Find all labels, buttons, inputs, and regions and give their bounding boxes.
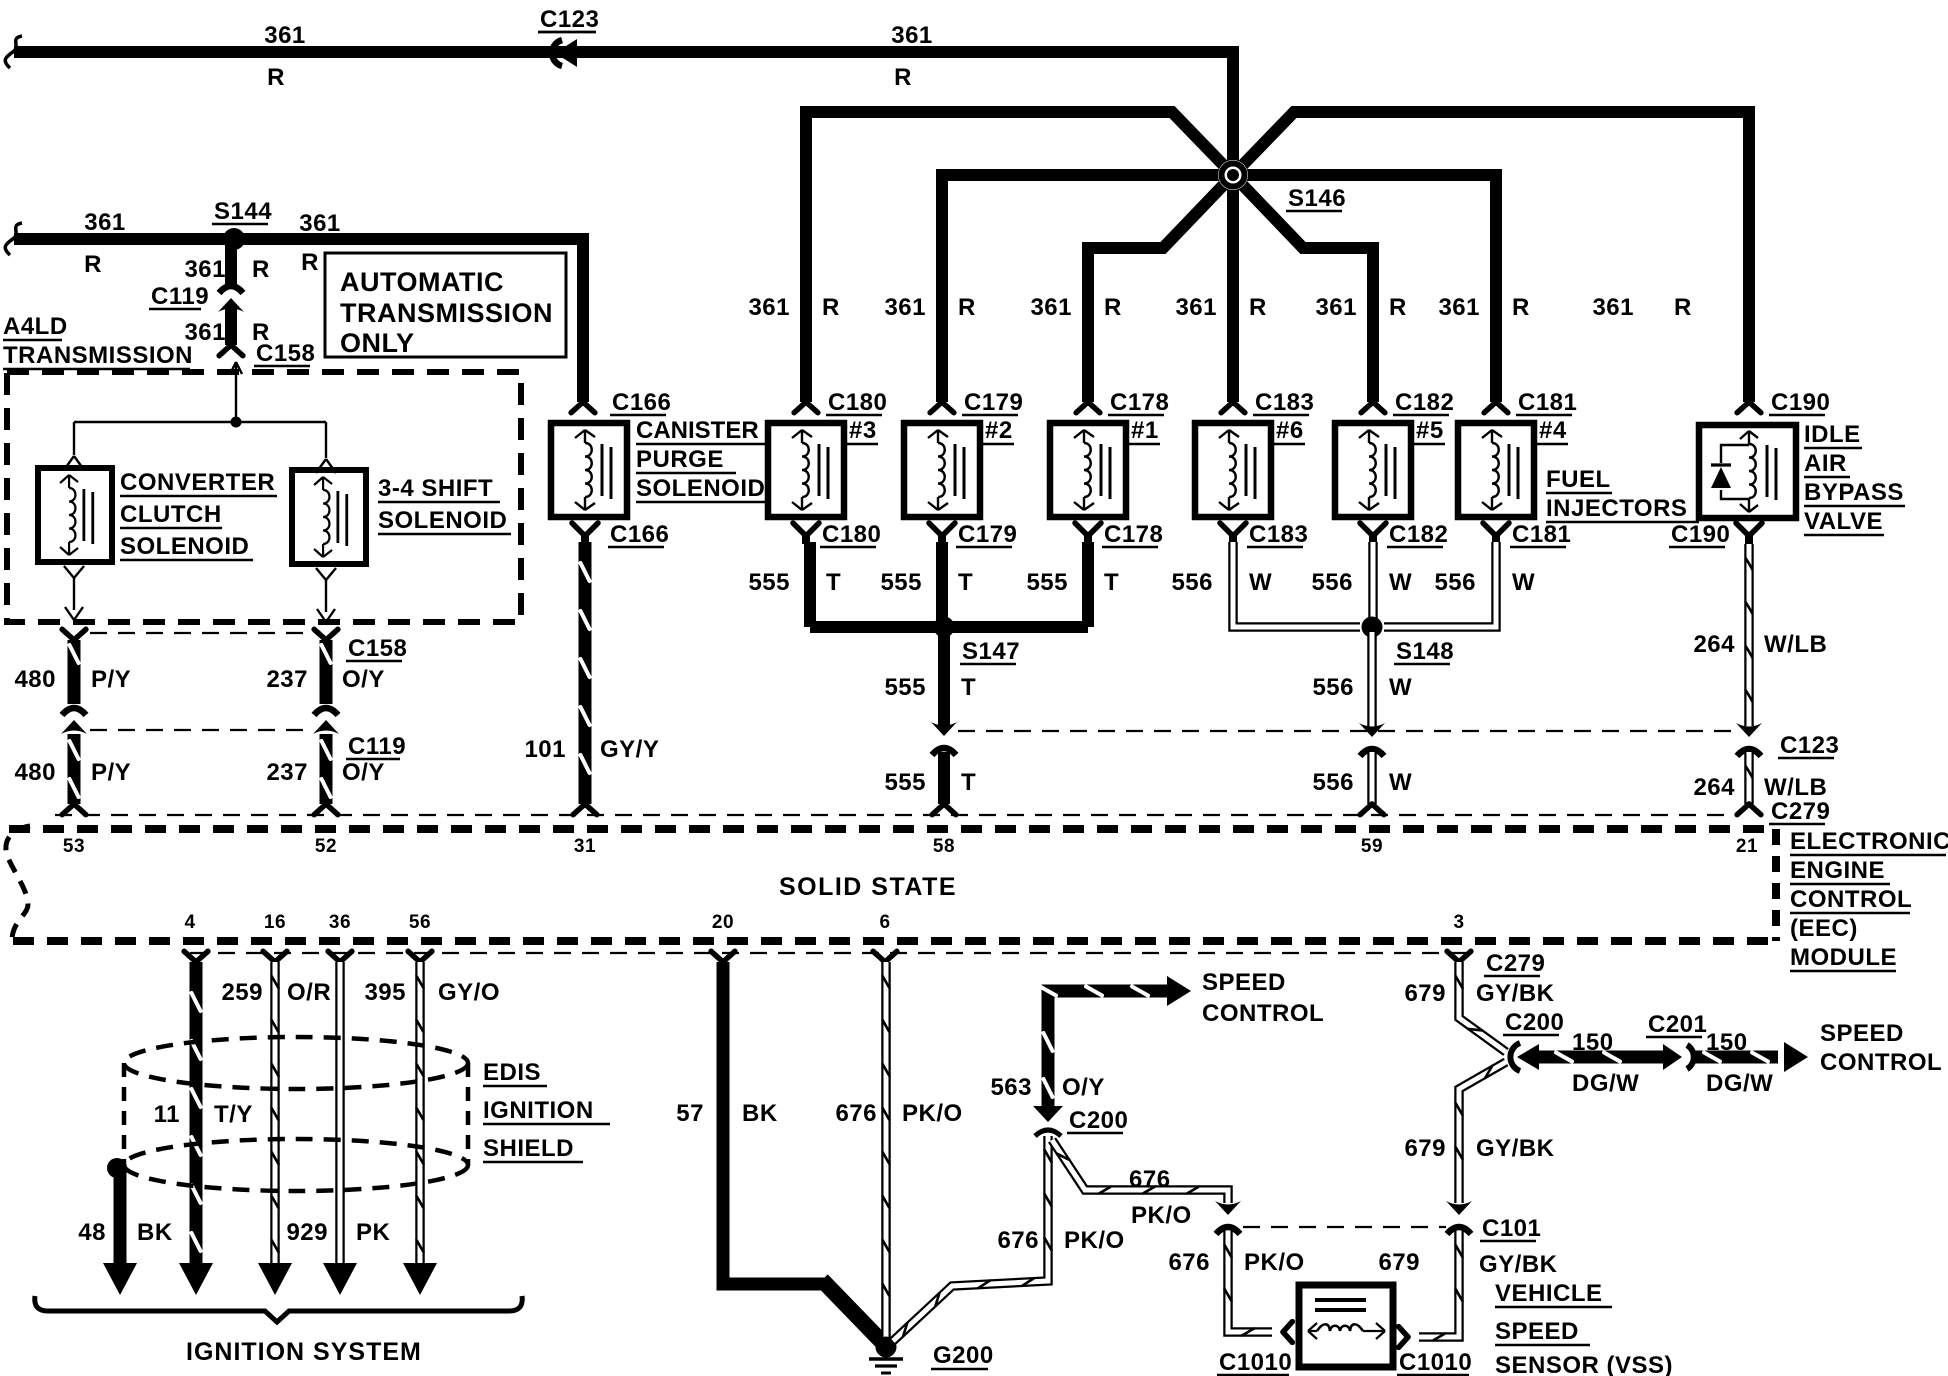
connector C123 (top bus) <box>538 6 599 67</box>
wire 555 T from injector #1 <box>1082 542 1094 627</box>
connector C158 line (dashed) <box>90 632 312 634</box>
svg-text:R: R <box>1249 294 1267 321</box>
svg-text:555: 555 <box>880 569 922 596</box>
svg-text:C101: C101 <box>1482 1215 1541 1242</box>
label R (above C119) <box>252 256 270 283</box>
label 264 (lower) <box>1693 774 1735 801</box>
svg-text:(EEC): (EEC) <box>1790 915 1858 942</box>
svg-text:ENGINE: ENGINE <box>1790 857 1885 884</box>
EEC pin 53 <box>63 836 85 857</box>
svg-text:31: 31 <box>574 836 596 857</box>
wire 556 W from injector #5 <box>1368 542 1378 632</box>
svg-text:C1010: C1010 <box>1219 1349 1292 1376</box>
svg-text:IGNITION SYSTEM: IGNITION SYSTEM <box>186 1338 422 1366</box>
EEC module outline top (dashed) <box>9 825 1776 833</box>
junction node inside A4LD <box>231 417 242 428</box>
connector C190 (top of idle air bypass valve) <box>1737 389 1830 416</box>
svg-text:555: 555 <box>884 769 926 796</box>
svg-text:C181: C181 <box>1512 521 1571 548</box>
wire 361 R top bus <box>14 46 1233 179</box>
label SOLID STATE <box>779 873 957 901</box>
svg-text:P/Y: P/Y <box>91 759 131 786</box>
svg-text:#6: #6 <box>1276 417 1304 444</box>
ignition system bracket <box>35 1296 522 1322</box>
svg-text:480: 480 <box>14 759 56 786</box>
label #4 <box>1537 417 1568 444</box>
connector C200 (679 to 150) <box>1503 1009 1564 1071</box>
wire 556 W from injector #6 <box>1233 542 1360 627</box>
label SPEED (upper speed control) <box>1202 969 1286 996</box>
label 556 at x1373 <box>1311 569 1353 596</box>
label 556 (below S148) <box>1312 674 1354 701</box>
label C119 (left column) <box>346 733 406 760</box>
EEC pin 4 <box>184 912 195 933</box>
svg-text:CANISTER: CANISTER <box>636 417 759 444</box>
svg-text:556: 556 <box>1311 569 1353 596</box>
svg-text:IGNITION: IGNITION <box>483 1097 594 1124</box>
splice S148 <box>1362 617 1455 666</box>
label R (branch C183) <box>1249 294 1267 321</box>
label T at x942 <box>958 569 973 596</box>
svg-text:3-4 SHIFT: 3-4 SHIFT <box>378 475 493 502</box>
label 150 (left) <box>1572 1029 1614 1056</box>
label VEHICLE <box>1495 1280 1612 1307</box>
label 361 (below C119) <box>184 319 226 346</box>
svg-text:C200: C200 <box>1069 1107 1128 1134</box>
label O/Y (lower) <box>342 759 385 786</box>
svg-text:C179: C179 <box>964 389 1023 416</box>
svg-text:C180: C180 <box>828 389 887 416</box>
connector C200 (563 to 676) <box>1033 1106 1128 1136</box>
connector C101 on 679 <box>1446 1201 1541 1242</box>
wire 480 P/Y lower <box>62 734 86 815</box>
wire 48 BK (shield drain to ignition) <box>103 1168 137 1295</box>
connector C180 (top of injector #3) <box>794 389 887 416</box>
EEC pin 52 <box>315 836 337 857</box>
svg-text:C200: C200 <box>1505 1009 1564 1036</box>
connector C201 <box>1646 1011 1707 1070</box>
svg-text:101: 101 <box>524 736 566 763</box>
svg-text:GY/BK: GY/BK <box>1476 980 1555 1007</box>
label 563 <box>990 1074 1032 1101</box>
label S146 <box>1286 185 1346 212</box>
label 361 (branch C182) <box>1315 294 1357 321</box>
svg-text:W/LB: W/LB <box>1764 631 1827 658</box>
label O/Y (upper) <box>342 666 385 693</box>
label 361 (S144 left) <box>84 209 126 236</box>
connector C182 (top of injector #5) <box>1361 389 1454 416</box>
connector C119 line (dashed) <box>90 729 312 731</box>
svg-text:C123: C123 <box>540 6 599 33</box>
label 3-4 SHIFT <box>378 475 500 502</box>
svg-text:CONTROL: CONTROL <box>1202 1000 1324 1027</box>
svg-text:T/Y: T/Y <box>214 1101 253 1128</box>
terminal arrow at 3-4 shift solenoid <box>316 459 336 473</box>
wire 555 T below S147 <box>938 627 950 726</box>
svg-text:O/Y: O/Y <box>342 759 385 786</box>
label 480 (lower) <box>14 759 56 786</box>
svg-text:T: T <box>961 769 976 796</box>
svg-text:C183: C183 <box>1249 521 1308 548</box>
connector C181 (bottom of injector #4) <box>1483 521 1571 548</box>
connector C182 (bottom of injector #5) <box>1360 521 1448 548</box>
label (EEC) <box>1790 915 1858 942</box>
label SOLENOID (converter clutch) <box>120 533 253 560</box>
label 361 (branch C183) <box>1175 294 1217 321</box>
svg-text:SOLENOID: SOLENOID <box>636 475 765 502</box>
svg-text:C190: C190 <box>1771 389 1830 416</box>
svg-text:361: 361 <box>1438 294 1480 321</box>
label 361 (above C119) <box>184 256 226 283</box>
label PK/O (C200-G200) <box>1064 1227 1125 1254</box>
label 555 at x810 <box>748 569 790 596</box>
svg-text:361: 361 <box>1315 294 1357 321</box>
svg-text:4: 4 <box>184 912 195 933</box>
svg-text:C178: C178 <box>1110 389 1169 416</box>
svg-text:150: 150 <box>1706 1029 1748 1056</box>
svg-text:S146: S146 <box>1288 185 1346 212</box>
svg-text:C178: C178 <box>1104 521 1163 548</box>
svg-text:361: 361 <box>84 209 126 236</box>
wire 563 O/Y (speed control feed) <box>1040 976 1191 1108</box>
label T at x1088 <box>1104 569 1119 596</box>
wire 679 GY/BK (C200 to C101) <box>1456 1062 1506 1203</box>
label DG/W (left) <box>1572 1070 1639 1097</box>
wire 555 T from injector #2 <box>936 542 948 621</box>
EDIS ignition shield (dashed cylinder) <box>124 1037 468 1191</box>
label 259 <box>221 979 263 1006</box>
svg-text:679: 679 <box>1378 1249 1420 1276</box>
svg-text:16: 16 <box>264 912 286 933</box>
connector C183 (bottom of injector #6) <box>1220 521 1308 548</box>
wire 237 O/Y upper <box>314 629 338 704</box>
svg-text:C123: C123 <box>1780 732 1839 759</box>
label GY/BK (upper) <box>1476 980 1555 1007</box>
svg-text:SOLID STATE: SOLID STATE <box>779 873 957 901</box>
wire 556 W from injector #4 <box>1384 542 1496 627</box>
svg-text:T: T <box>958 569 973 596</box>
label R (branch C179) <box>958 294 976 321</box>
svg-text:R: R <box>267 64 285 91</box>
wire 555 T from injector #3 <box>804 542 816 627</box>
svg-text:C166: C166 <box>612 389 671 416</box>
label 679 (lower) <box>1378 1249 1420 1276</box>
wire 11 T/Y (EEC pin 4 to ignition) <box>179 951 213 1295</box>
label CANISTER <box>636 417 768 444</box>
wire 555 T to EEC pin 58 <box>932 752 956 815</box>
wire 150 DG/W (C201 to speed control) <box>1692 1042 1808 1072</box>
svg-text:BK: BK <box>137 1219 173 1246</box>
EEC pin 36 <box>329 912 351 933</box>
svg-text:150: 150 <box>1572 1029 1614 1056</box>
svg-text:52: 52 <box>315 836 337 857</box>
continuation squiggle left end of S144 bus <box>5 223 22 255</box>
label 48 <box>78 1219 106 1246</box>
label R (top bus right) <box>894 64 912 91</box>
connector C123 on 264 wire <box>1736 723 1839 759</box>
wire 676 PK/O (to VSS) <box>1225 1231 1272 1335</box>
svg-text:361: 361 <box>1592 294 1634 321</box>
label PURGE <box>636 446 736 473</box>
svg-text:361: 361 <box>748 294 790 321</box>
label MODULE <box>1790 944 1897 971</box>
label T (below S147) <box>961 674 976 701</box>
label 101 <box>524 736 566 763</box>
label CONTROL (EEC name) <box>1790 886 1912 913</box>
label SOLENOID (3-4 shift) <box>378 507 511 534</box>
connector C123 on 555 wire <box>931 722 957 755</box>
svg-text:264: 264 <box>1693 631 1735 658</box>
label SOLENOID (canister purge) <box>636 475 771 502</box>
label BK (57) <box>742 1100 778 1127</box>
EEC pin 16 <box>264 912 286 933</box>
label SHIELD <box>483 1135 583 1162</box>
svg-text:C182: C182 <box>1389 521 1448 548</box>
connector C158 (at A4LD) <box>219 340 315 367</box>
svg-text:361: 361 <box>891 22 933 49</box>
connector C1010 (left) <box>1217 1322 1292 1376</box>
splice S146 star junction <box>806 46 1749 402</box>
fuel injector #4 (C181) <box>1458 423 1534 517</box>
idle air bypass valve <box>1699 425 1796 518</box>
svg-text:T: T <box>1104 569 1119 596</box>
EEC pin 6 <box>879 912 890 933</box>
label R (branch C190) <box>1674 294 1692 321</box>
svg-text:395: 395 <box>364 979 406 1006</box>
svg-text:S148: S148 <box>1396 638 1454 665</box>
label R (below C119) <box>252 319 270 346</box>
label 556 (to pin 59) <box>1312 769 1354 796</box>
svg-text:BYPASS: BYPASS <box>1804 479 1904 506</box>
svg-text:C182: C182 <box>1395 389 1454 416</box>
connector C178 (bottom of injector #1) <box>1075 521 1163 548</box>
svg-text:59: 59 <box>1361 836 1383 857</box>
svg-text:INJECTORS: INJECTORS <box>1546 495 1687 522</box>
svg-text:237: 237 <box>266 759 308 786</box>
label 361 (top bus left) <box>264 22 306 49</box>
svg-text:563: 563 <box>990 1074 1032 1101</box>
label T/Y <box>214 1101 253 1128</box>
label 361 (branch C190) <box>1592 294 1634 321</box>
connector C166 (bottom of canister purge solenoid) <box>572 521 669 548</box>
svg-text:361: 361 <box>299 210 341 237</box>
EEC pin 20 <box>712 912 734 933</box>
svg-text:S144: S144 <box>214 198 272 225</box>
svg-text:PK/O: PK/O <box>1131 1202 1192 1229</box>
EEC module outline bottom (dashed) <box>13 937 1776 945</box>
connector C190 (bottom of idle air bypass valve) <box>1669 521 1762 548</box>
EEC module outline left brace (dashed) <box>6 826 30 941</box>
connector C180 (bottom of injector #3) <box>793 521 881 548</box>
canister purge solenoid <box>551 423 627 517</box>
svg-text:679: 679 <box>1404 980 1446 1007</box>
label 676 (to VSS) <box>1168 1249 1210 1276</box>
label PK/O (pin 6) <box>902 1100 963 1127</box>
svg-text:CONVERTER: CONVERTER <box>120 469 275 496</box>
label 679 (middle) <box>1404 1135 1446 1162</box>
wire converter clutch solenoid to case <box>64 566 84 620</box>
svg-text:ONLY: ONLY <box>340 328 415 358</box>
splice S144 <box>212 198 272 250</box>
label GY/BK (lower) <box>1479 1251 1558 1278</box>
wire 101 GY/Y (canister purge to EEC pin 31) <box>573 542 597 815</box>
fuel injector #2 (C179) <box>904 423 980 517</box>
svg-text:TRANSMISSION: TRANSMISSION <box>340 298 553 328</box>
label GY/Y <box>600 736 659 763</box>
label W at x1496 <box>1512 569 1535 596</box>
label C158 (left column) <box>346 635 407 662</box>
label 237 (upper) <box>266 666 308 693</box>
svg-text:R: R <box>1389 294 1407 321</box>
connector C101 line (dashed) <box>1243 1226 1446 1228</box>
svg-text:SENSOR (VSS): SENSOR (VSS) <box>1495 1352 1673 1376</box>
svg-text:556: 556 <box>1312 674 1354 701</box>
svg-text:CLUTCH: CLUTCH <box>120 501 222 528</box>
label PK/O (to VSS) <box>1244 1249 1305 1276</box>
svg-text:53: 53 <box>63 836 85 857</box>
label 361 (branch C181) <box>1438 294 1480 321</box>
label 480 (upper) <box>14 666 56 693</box>
connector C123 on 556 wire <box>1359 723 1385 756</box>
connector C183 (top of injector #6) <box>1221 389 1314 416</box>
label CLUTCH <box>120 501 222 528</box>
svg-text:555: 555 <box>1026 569 1068 596</box>
wire inside A4LD from C158 to solenoids <box>74 362 326 458</box>
svg-text:W: W <box>1389 674 1412 701</box>
label R (top bus left) <box>267 64 285 91</box>
label EDIS <box>483 1059 547 1086</box>
svg-text:C180: C180 <box>822 521 881 548</box>
wire 259 O/R (EEC pin 16) <box>258 951 292 1295</box>
label W (to pin 59) <box>1389 769 1412 796</box>
label O/Y (563) <box>1062 1074 1105 1101</box>
svg-text:C201: C201 <box>1648 1011 1707 1038</box>
wire 556 W below S148 <box>1367 632 1377 727</box>
svg-text:SPEED: SPEED <box>1495 1318 1579 1345</box>
connector C181 (top of injector #4) <box>1484 389 1577 416</box>
svg-text:PK/O: PK/O <box>1064 1227 1125 1254</box>
label IGNITION SYSTEM <box>186 1338 422 1366</box>
svg-text:G200: G200 <box>933 1342 994 1369</box>
label 150 (right) <box>1706 1029 1748 1056</box>
svg-text:EDIS: EDIS <box>483 1059 541 1086</box>
label G200 <box>931 1342 994 1369</box>
svg-text:AIR: AIR <box>1804 450 1847 477</box>
wire 929 PK (EEC pin 36) <box>323 951 357 1295</box>
svg-text:361: 361 <box>184 256 226 283</box>
svg-text:21: 21 <box>1736 836 1758 857</box>
label 11 <box>154 1101 180 1128</box>
fuel injector #1 (C178) <box>1050 423 1126 517</box>
svg-text:AUTOMATIC: AUTOMATIC <box>340 267 504 297</box>
svg-text:679: 679 <box>1404 1135 1446 1162</box>
connector C119 on wire 480 <box>61 708 87 734</box>
svg-text:C158: C158 <box>348 635 407 662</box>
label CONTROL (right speed control) <box>1820 1049 1942 1076</box>
label W at x1233 <box>1249 569 1272 596</box>
label GY/BK (middle) <box>1476 1135 1555 1162</box>
svg-text:R: R <box>84 251 102 278</box>
svg-text:264: 264 <box>1693 774 1735 801</box>
EEC pin 3 <box>1453 912 1464 933</box>
splice S147 <box>934 617 1021 666</box>
svg-text:56: 56 <box>409 912 431 933</box>
EEC pin 31 <box>574 836 596 857</box>
label ENGINE <box>1790 857 1890 884</box>
svg-text:T: T <box>961 674 976 701</box>
label IGNITION <box>483 1097 610 1124</box>
label W/LB (lower) <box>1764 774 1827 801</box>
svg-text:480: 480 <box>14 666 56 693</box>
label BK (48) <box>137 1219 173 1246</box>
label INJECTORS <box>1546 495 1699 522</box>
svg-text:C119: C119 <box>348 733 406 760</box>
svg-text:GY/Y: GY/Y <box>600 736 659 763</box>
wire 676 PK/O (C200 to C101) <box>1052 1140 1228 1203</box>
svg-text:R: R <box>958 294 976 321</box>
wire 555 T bus <box>810 621 1088 633</box>
svg-text:GY/BK: GY/BK <box>1479 1251 1558 1278</box>
label T (to pin 58) <box>961 769 976 796</box>
EEC pin 58 <box>933 836 955 857</box>
svg-text:SOLENOID: SOLENOID <box>378 507 507 534</box>
label SPEED (VSS) <box>1495 1318 1590 1345</box>
svg-text:R: R <box>1512 294 1530 321</box>
svg-text:#1: #1 <box>1131 417 1159 444</box>
label 679 (upper) <box>1404 980 1446 1007</box>
wire 237 O/Y lower <box>314 734 338 815</box>
svg-text:C1010: C1010 <box>1399 1349 1472 1376</box>
label P/Y (upper) <box>91 666 131 693</box>
svg-text:R: R <box>1674 294 1692 321</box>
svg-text:#2: #2 <box>985 417 1013 444</box>
wire 264 W/LB upper <box>1746 544 1753 726</box>
label R (branch C180) <box>822 294 840 321</box>
svg-text:676: 676 <box>1129 1166 1171 1193</box>
svg-text:VALVE: VALVE <box>1804 508 1883 535</box>
wire 361 R feed bus (S144 branch) <box>14 239 583 402</box>
wire 395 GY/O (EEC pin 56) <box>403 951 437 1295</box>
node on EDIS shield (48 BK tap) <box>107 1158 127 1178</box>
label O/R <box>287 979 331 1006</box>
svg-text:CONTROL: CONTROL <box>1790 886 1912 913</box>
svg-text:556: 556 <box>1171 569 1213 596</box>
label PK/O (horizontal) <box>1131 1202 1192 1229</box>
svg-text:W: W <box>1512 569 1535 596</box>
label CONVERTER <box>120 469 277 496</box>
label ELECTRONIC <box>1790 828 1948 855</box>
label #2 <box>983 417 1014 444</box>
connector on 676 at C101 line <box>1215 1201 1241 1234</box>
EEC module top connector line (dashed) <box>55 814 1738 816</box>
svg-text:O/R: O/R <box>287 979 331 1006</box>
connector C178 (top of injector #1) <box>1076 389 1169 416</box>
svg-text:PURGE: PURGE <box>636 446 724 473</box>
label 361 (top bus right) <box>891 22 933 49</box>
EEC pin 59 <box>1361 836 1383 857</box>
svg-text:PK/O: PK/O <box>1244 1249 1305 1276</box>
label VALVE <box>1804 508 1884 535</box>
svg-text:#5: #5 <box>1416 417 1444 444</box>
label R (S144 right) <box>301 249 319 276</box>
svg-text:DG/W: DG/W <box>1706 1070 1773 1097</box>
label C279 (right) <box>1769 798 1830 825</box>
svg-text:W: W <box>1389 769 1412 796</box>
wire 264 W/LB lower <box>1737 752 1761 815</box>
svg-text:58: 58 <box>933 836 955 857</box>
label SENSOR (VSS) <box>1495 1352 1673 1376</box>
svg-text:SPEED: SPEED <box>1820 1020 1904 1047</box>
